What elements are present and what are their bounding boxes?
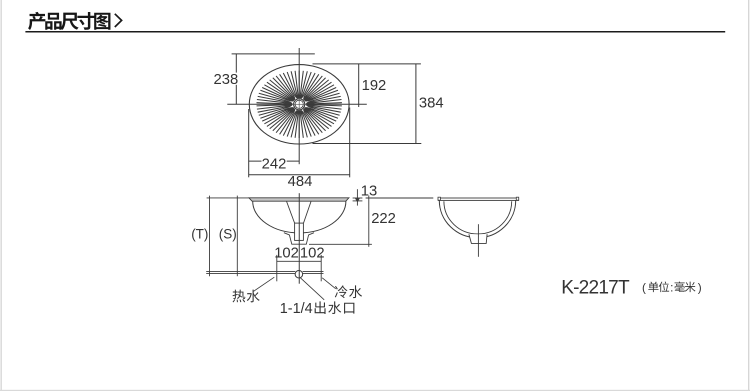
side bowl outer arc — [439, 200, 515, 237]
outer rim ellipse — [249, 65, 349, 144]
drain white clearing — [293, 98, 305, 110]
svg-text:384: 384 — [419, 96, 444, 112]
side rim bar — [438, 198, 518, 200]
side rim right nub — [516, 197, 518, 200]
hot supply pipe tick — [276, 255, 278, 281]
dim 238 extension line top — [232, 53, 315, 55]
crosshair across drain — [293, 103, 306, 105]
svg-text:(T): (T) — [191, 227, 208, 242]
label 冷水 — [335, 285, 348, 298]
cold supply pipe tick — [320, 255, 322, 281]
svg-text:102: 102 — [274, 245, 299, 261]
dim 13 arrowhead — [355, 198, 360, 202]
dim 242 text — [262, 156, 287, 168]
drain flange — [284, 233, 314, 245]
sunburst fluting spokes — [257, 71, 342, 138]
bottom page border — [0, 390, 750, 391]
drain outlet circle — [295, 270, 303, 278]
header chevron — [115, 14, 122, 27]
dim 384 line — [415, 64, 417, 144]
side rim left nub — [438, 197, 440, 200]
right page border — [748, 0, 749, 391]
side drain hub — [469, 234, 487, 243]
supply line lower — [206, 272, 323, 274]
svg-text:238: 238 — [213, 72, 238, 88]
front view centerline — [298, 193, 300, 284]
svg-text:484: 484 — [288, 174, 313, 190]
crosshair vertical — [298, 48, 300, 164]
flange bottom extension line — [309, 243, 372, 245]
dim 192 extension line top — [313, 63, 421, 65]
dim 238 line — [235, 54, 237, 104]
top line to side view — [366, 197, 434, 199]
svg-text:102: 102 — [300, 245, 325, 261]
leader to 热水 — [254, 277, 275, 291]
dim (T) line — [209, 196, 211, 277]
header title 产品尺寸图 — [28, 12, 45, 30]
dim 13 vertical line — [356, 189, 358, 205]
dim 192 line — [358, 64, 360, 107]
countertop rim bar — [249, 198, 349, 201]
leader to 冷水 — [322, 278, 336, 289]
svg-text:(: ( — [642, 281, 646, 295]
dim 102 102 line — [277, 260, 322, 262]
svg-text:222: 222 — [371, 211, 396, 227]
dim 384 extension line bottom — [313, 143, 422, 145]
drain outer circle — [294, 99, 305, 110]
dim 238 text — [214, 73, 238, 85]
dim 222 line — [368, 196, 370, 247]
dim 484 line — [249, 174, 350, 176]
dim 13 tick bottom — [353, 200, 363, 202]
dim (S) line — [236, 196, 238, 277]
svg-text:): ) — [698, 281, 702, 295]
svg-text:242: 242 — [262, 157, 287, 173]
svg-text:192: 192 — [362, 78, 387, 94]
ext line right of ellipse — [349, 108, 351, 178]
funnel right line — [304, 202, 312, 224]
label 热水 — [232, 290, 245, 303]
left page border — [1, 0, 2, 391]
svg-text:(S): (S) — [219, 227, 237, 242]
ext line left of ellipse — [248, 109, 250, 177]
dim 242 line — [249, 160, 300, 162]
svg-text:K-2217T: K-2217T — [561, 278, 630, 299]
crosshair horizontal — [227, 103, 366, 105]
svg-text::: : — [670, 281, 673, 295]
bowl outer arc — [253, 201, 346, 233]
dim 13 tick top — [353, 197, 363, 199]
drain outlet circle clearing — [295, 271, 302, 278]
header underline — [25, 31, 725, 33]
side centerline — [477, 224, 479, 257]
label 出水口 — [315, 301, 326, 314]
top extension line left — [207, 197, 249, 199]
svg-text:1-1/4: 1-1/4 — [280, 301, 313, 317]
drain tailpiece — [295, 223, 304, 240]
side bowl inner arc — [444, 201, 512, 234]
supply line upper — [206, 270, 323, 272]
funnel left line — [287, 202, 295, 224]
leader to 出水口 — [300, 278, 324, 300]
drain inner circle — [295, 100, 303, 108]
